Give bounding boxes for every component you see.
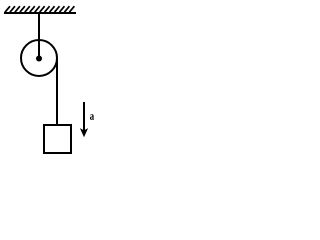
block bbox=[44, 125, 71, 153]
rope bbox=[56, 58, 58, 125]
acceleration arrow head bbox=[80, 128, 88, 137]
ceiling hatch marks bbox=[5, 6, 74, 12]
ceiling line bbox=[4, 12, 76, 14]
support rod bbox=[38, 14, 40, 57]
pulley axle dot bbox=[36, 56, 42, 62]
acceleration arrow shaft bbox=[83, 102, 85, 131]
pulley circle bbox=[21, 40, 57, 76]
label a bbox=[90, 114, 94, 120]
